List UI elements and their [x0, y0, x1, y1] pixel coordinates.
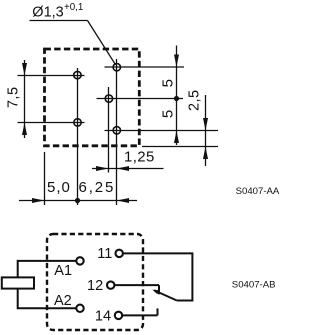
svg-text:14: 14 [95, 308, 111, 324]
terminal A2 [76, 305, 83, 312]
svg-text:6,25: 6,25 [79, 179, 116, 196]
vertical centerline x108.4 through hole H4 down to 1,25 dimension [108, 87, 110, 173]
terminal A1 [76, 257, 83, 264]
terminal 11 [116, 250, 123, 257]
vertical centerline x116.5 through holes H3 H5 down to bottom dimension [116, 59, 118, 205]
schematic dashed box (S0407-AB) [47, 234, 143, 330]
svg-text:S0407-AA: S0407-AA [236, 186, 279, 197]
fixed contact 12 tick [158, 285, 160, 294]
wire terminal 12 to fixed contact [114, 284, 159, 286]
extension line y98.7 through hole H4 to right dimension [97, 98, 184, 100]
vertical centerline x77.5 through holes H1 H2 down to bottom dimension [77, 68, 79, 205]
extension line y75 through hole H1 [18, 75, 85, 77]
hole H1 [74, 71, 81, 78]
wire coil top to A1 [18, 261, 76, 278]
wire terminal 11 loop to contact pivot [123, 253, 192, 300]
svg-text:A2: A2 [54, 293, 72, 309]
hole diameter label Ø1,3 +0,1 [32, 2, 83, 21]
terminal 14 [115, 312, 122, 319]
dimension 2,5 line [203, 95, 208, 166]
svg-text:7,5: 7,5 [5, 86, 21, 108]
extension line x44.5 from rectangle left edge down to bottom dimension [44, 152, 46, 205]
svg-text:+0,1: +0,1 [64, 2, 83, 13]
svg-text:5: 5 [160, 79, 177, 87]
svg-text:S0407-AB: S0407-AB [232, 279, 276, 290]
extension line y122 through hole H2 [18, 122, 85, 124]
svg-text:5,0: 5,0 [47, 179, 71, 196]
svg-text:A1: A1 [54, 263, 72, 279]
extension line y66.5 through hole H3 to right dimension [105, 66, 185, 68]
dimension 1,25 line [92, 166, 164, 171]
extension line y146 from rectangle bottom edge to 2,5 dimension [142, 146, 218, 148]
svg-text:2,5: 2,5 [186, 89, 202, 111]
fixed contact 14 stub [157, 308, 159, 315]
dimension 7,5 line [22, 60, 27, 138]
terminal 12 [107, 281, 114, 288]
hole H4 [105, 95, 112, 102]
dimension 5 5 chain line right [174, 46, 179, 146]
hole H5 [113, 127, 120, 134]
relay outline dashed rectangle (top view S0407-AA) [45, 49, 140, 146]
movable contact blade [152, 290, 176, 301]
svg-text:12: 12 [87, 278, 103, 294]
wire terminal 14 to fixed contact [122, 314, 157, 316]
leader line from diameter label to hole H3 [30, 21, 116, 65]
svg-text:11: 11 [97, 246, 112, 262]
hole H3 [113, 63, 120, 70]
svg-text:5: 5 [160, 110, 177, 118]
coil [2, 277, 34, 288]
bottom dimension chain line 5,0 / 6,25 [19, 198, 137, 203]
svg-text:Ø1,3: Ø1,3 [32, 5, 63, 21]
wire coil bottom to A2 [18, 289, 76, 309]
hole H2 [74, 119, 81, 126]
svg-text:1,25: 1,25 [124, 148, 155, 165]
extension line y130 through hole H5 to 2,5 dimension [105, 130, 219, 132]
